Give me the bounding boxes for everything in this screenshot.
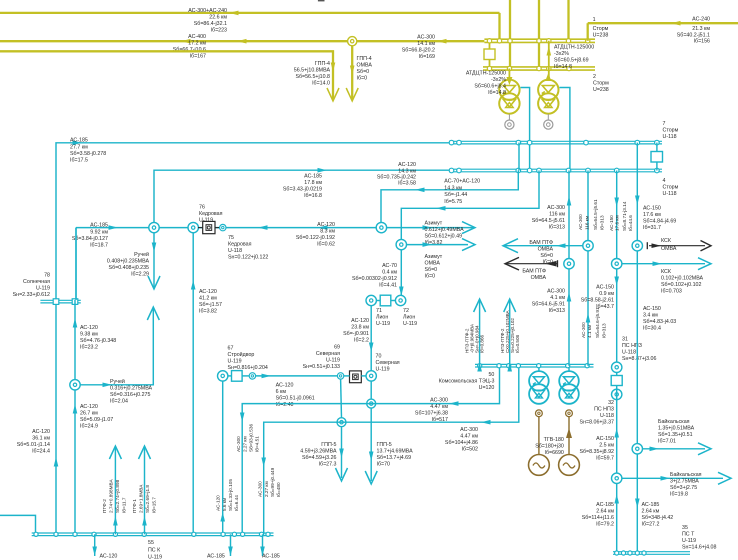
svg-text:ОМВА: ОМВА bbox=[531, 275, 547, 281]
arrow AT1 down into circle bbox=[506, 77, 512, 85]
arrow NPZ b2 bbox=[507, 362, 512, 372]
arrow NPZ a1 bbox=[474, 299, 486, 312]
svg-text:U-119: U-119 bbox=[326, 358, 340, 364]
wire AC-150 17.6 right bbox=[636, 143, 638, 553]
svg-text:U-118: U-118 bbox=[228, 248, 242, 254]
svg-text:2.69+1.8МВА: 2.69+1.8МВА bbox=[139, 484, 144, 513]
svg-text:116 км: 116 км bbox=[549, 212, 565, 218]
svg-text:2.64 км: 2.64 км bbox=[596, 509, 614, 515]
svg-text:U-119: U-119 bbox=[148, 555, 162, 560]
svg-text:55: 55 bbox=[148, 540, 154, 546]
svg-text:Iб=6690: Iб=6690 bbox=[545, 450, 564, 456]
svg-text:Сторм: Сторм bbox=[593, 81, 609, 87]
svg-text:Iб=2.04: Iб=2.04 bbox=[110, 399, 128, 405]
svg-text:КСК: КСК bbox=[661, 238, 672, 244]
svg-text:Sб=2.69+j1.8: Sб=2.69+j1.8 bbox=[145, 485, 150, 513]
svg-text:17.2 км: 17.2 км bbox=[188, 41, 206, 47]
wire 69 down bbox=[340, 379, 343, 418]
svg-text:Sн=14.6+j4.08: Sн=14.6+j4.08 bbox=[682, 545, 716, 551]
breaker square NPZ bbox=[611, 376, 622, 386]
arrow up below bus78 bbox=[73, 318, 78, 328]
svg-text:Sн=2.33+j0.612: Sн=2.33+j0.612 bbox=[13, 292, 50, 298]
wire AC-240 corner bbox=[587, 23, 589, 41]
svg-text:9.38 км: 9.38 км bbox=[80, 332, 98, 338]
svg-text:22.6 км: 22.6 км bbox=[209, 15, 227, 21]
node 69 Severnaya bbox=[337, 373, 343, 379]
svg-text:Iб=15.7: Iб=15.7 bbox=[152, 497, 157, 513]
svg-text:Sб=107+j6.38: Sб=107+j6.38 bbox=[415, 411, 448, 417]
svg-text:Sб=104+j4.86: Sб=104+j4.86 bbox=[445, 440, 478, 446]
svg-text:3.4 км: 3.4 км bbox=[643, 313, 658, 319]
svg-text:Sб=64.6-j5.91: Sб=64.6-j5.91 bbox=[532, 302, 565, 308]
svg-text:U-119: U-119 bbox=[376, 367, 390, 373]
svg-text:Sб=66.8-j20.2: Sб=66.8-j20.2 bbox=[402, 48, 435, 54]
wire AC-120 23.8 bbox=[370, 305, 372, 371]
wire corner down from Kedrovaya line bbox=[75, 228, 77, 300]
arrow GPP-4 1a bbox=[331, 63, 336, 73]
svg-text:Iб=480: Iб=480 bbox=[276, 482, 281, 497]
svg-text:Iб=2.2: Iб=2.2 bbox=[354, 338, 369, 344]
generator G1 TGV-180 bbox=[536, 410, 543, 417]
svg-text:Кедровая: Кедровая bbox=[228, 242, 252, 248]
svg-text:41.2 км: 41.2 км bbox=[199, 296, 217, 302]
svg-text:АС-400: АС-400 bbox=[188, 34, 206, 40]
svg-text:Северная: Северная bbox=[316, 351, 340, 357]
wire incoming top feeder 2 bbox=[538, 0, 540, 69]
arrow down AC-185 right bbox=[635, 499, 640, 509]
svg-text:АС-150: АС-150 bbox=[596, 285, 614, 291]
arrow right on Kedrovaya line bbox=[109, 225, 119, 230]
svg-text:Iб=7.01: Iб=7.01 bbox=[658, 439, 676, 445]
svg-text:Iб=11.7: Iб=11.7 bbox=[122, 497, 127, 513]
svg-text:Sб=13.7+j4.69: Sб=13.7+j4.69 bbox=[377, 455, 412, 461]
arrow AC-240 bbox=[671, 21, 681, 26]
arrow up AC-150 2.5 bbox=[614, 428, 619, 438]
svg-text:13.7+j4.69МВА: 13.7+j4.69МВА bbox=[377, 449, 414, 455]
svg-text:Iб=5.75: Iб=5.75 bbox=[444, 199, 462, 205]
nodes on bus 55 bbox=[34, 532, 38, 536]
svg-text:U-118: U-118 bbox=[600, 413, 614, 419]
svg-text:Sб=0.612+j0.49: Sб=0.612+j0.49 bbox=[425, 234, 463, 240]
bus 2 Storm 220kV bbox=[483, 66, 595, 68]
svg-text:-3х2%: -3х2% bbox=[554, 51, 569, 57]
svg-text:0.612+j0.49МВА: 0.612+j0.49МВА bbox=[425, 227, 465, 233]
bus 78 Solnechnaya bbox=[40, 299, 80, 301]
arrow Azimut1 b bbox=[462, 222, 475, 234]
nodes on bus 35 bbox=[615, 551, 619, 555]
ground stub AT1 bbox=[508, 114, 510, 120]
tick KSK bbox=[646, 242, 648, 249]
svg-text:Солнечная: Солнечная bbox=[23, 279, 50, 285]
svg-text:АС-70+АС-120: АС-70+АС-120 bbox=[444, 179, 480, 185]
svg-text:Iб=313: Iб=313 bbox=[549, 308, 565, 314]
arrow GPP-4 2b bbox=[346, 88, 358, 101]
transformer T2 TEC-3 bbox=[568, 367, 570, 371]
svg-text:14.3 км: 14.3 км bbox=[444, 186, 462, 192]
node GPP5 a bbox=[337, 418, 346, 427]
arrow up near bus50 bbox=[586, 313, 591, 323]
arrow up on 36.1 bbox=[54, 457, 59, 467]
svg-text:75: 75 bbox=[228, 235, 234, 241]
svg-text:17.8 км: 17.8 км bbox=[304, 180, 322, 186]
svg-text:0.9 км: 0.9 км bbox=[599, 291, 614, 297]
svg-text:Sб=0.122-j0.192: Sб=0.122-j0.192 bbox=[296, 235, 335, 241]
transformer AT1 ATDCTN-125000 bbox=[499, 80, 519, 100]
wire GPP5 b down bbox=[370, 408, 372, 481]
svg-text:Sб=0: Sб=0 bbox=[357, 69, 370, 75]
breaker square bus7-bus4 bbox=[651, 152, 663, 163]
svg-text:Sб=0.51-j0.0961: Sб=0.51-j0.0961 bbox=[276, 396, 315, 402]
node Baikalskaya 2 bbox=[612, 473, 622, 483]
wire corner down to bus 1 bbox=[498, 13, 500, 41]
bus 7 Storm 110kV bbox=[449, 140, 662, 142]
svg-text:АС-300: АС-300 bbox=[460, 427, 478, 433]
nodes on bus 7 bbox=[449, 140, 454, 145]
svg-text:АС-150: АС-150 bbox=[596, 436, 614, 442]
arrow NPZ a2 bbox=[477, 362, 482, 372]
arrow below c bbox=[260, 547, 265, 557]
svg-text:Sб=60.5+j8.69: Sб=60.5+j8.69 bbox=[554, 58, 589, 64]
svg-text:17.6 км: 17.6 км bbox=[643, 212, 661, 218]
wire Kedrovaya line bbox=[76, 227, 474, 229]
svg-text:0.316+j0.275МВА: 0.316+j0.275МВА bbox=[110, 386, 153, 392]
svg-text:Северная: Северная bbox=[376, 360, 400, 366]
svg-text:4.1 км: 4.1 км bbox=[550, 295, 565, 301]
svg-text:8.3 км: 8.3 км bbox=[320, 229, 335, 235]
svg-text:Sб=8.58-j2.61: Sб=8.58-j2.61 bbox=[581, 298, 614, 304]
svg-text:Iб=3.58: Iб=3.58 bbox=[398, 181, 416, 187]
svg-text:Iб=17.5: Iб=17.5 bbox=[70, 158, 88, 164]
svg-text:U-118: U-118 bbox=[622, 350, 636, 356]
svg-text:АС-120: АС-120 bbox=[32, 429, 50, 435]
svg-text:АС-300: АС-300 bbox=[547, 205, 565, 211]
svg-text:21.3 км: 21.3 км bbox=[692, 26, 710, 32]
svg-text:Sб=0.102+j0.102: Sб=0.102+j0.102 bbox=[661, 282, 701, 288]
nodes on bus 1 bbox=[487, 39, 491, 43]
wire PTF-2 load bbox=[114, 446, 116, 534]
wire stubs 71-72 bbox=[376, 300, 380, 302]
wire below bus55 b bbox=[230, 534, 232, 556]
svg-text:Iб=24.4: Iб=24.4 bbox=[32, 449, 50, 455]
wire stubs 69-70 bbox=[361, 375, 366, 377]
arrow AC-300 near bus bbox=[437, 39, 447, 44]
svg-text:Iб=14.8: Iб=14.8 bbox=[488, 90, 506, 96]
arrow AC-185 27.7 bbox=[73, 141, 83, 146]
wire left stub y515 bbox=[0, 515, 36, 534]
wire Azimut 2 bbox=[406, 244, 468, 246]
svg-text:7: 7 bbox=[663, 121, 666, 127]
wire BAM PTF cyan bbox=[503, 245, 583, 247]
svg-text:76: 76 bbox=[199, 205, 205, 211]
svg-text:ПТФ-1: ПТФ-1 bbox=[132, 499, 137, 513]
svg-text:U-119: U-119 bbox=[682, 538, 696, 544]
svg-text:U=238: U=238 bbox=[593, 33, 609, 39]
svg-text:Sб=3.84-j0.127: Sб=3.84-j0.127 bbox=[72, 236, 108, 242]
arrow down NPZ top bbox=[614, 198, 619, 208]
svg-text:2.64 км: 2.64 км bbox=[642, 509, 660, 515]
svg-text:0.102+j0.102МВА: 0.102+j0.102МВА bbox=[661, 276, 704, 282]
node tap on AC-400 line bbox=[348, 37, 357, 46]
svg-text:71: 71 bbox=[376, 308, 382, 314]
arrow KSK black bbox=[652, 243, 662, 248]
arrow GPP-4 2a bbox=[350, 66, 355, 76]
svg-text:Ручей: Ручей bbox=[110, 378, 125, 385]
svg-text:Iб=14.8: Iб=14.8 bbox=[554, 64, 572, 70]
svg-text:Sб=93-j0.536: Sб=93-j0.536 bbox=[249, 424, 254, 452]
svg-text:АС-300: АС-300 bbox=[236, 436, 241, 452]
svg-text:72: 72 bbox=[403, 308, 409, 314]
svg-text:Sб=0.00302-j0.912: Sб=0.00302-j0.912 bbox=[352, 276, 397, 282]
arrow GPP5 a2 bbox=[336, 468, 348, 481]
arrow GPP5 b1 bbox=[369, 452, 374, 462]
svg-text:Iб=31.7: Iб=31.7 bbox=[643, 225, 661, 231]
wire AC-185 27.7km bbox=[56, 143, 449, 535]
ground circle AT1 bbox=[505, 120, 514, 129]
svg-text:Iб=0.508: Iб=0.508 bbox=[515, 334, 520, 353]
svg-text:U-119: U-119 bbox=[228, 359, 242, 365]
arrow up on 41.2 bbox=[191, 280, 196, 290]
svg-text:Sб=86.4-j32.1: Sб=86.4-j32.1 bbox=[194, 21, 227, 27]
svg-text:Sб=-j1.57: Sб=-j1.57 bbox=[199, 302, 222, 308]
arrow PTF-2 a bbox=[109, 446, 121, 459]
arrow PTF-1 b bbox=[142, 516, 147, 526]
svg-text:Sб=1.33-j0.105: Sб=1.33-j0.105 bbox=[228, 479, 233, 511]
svg-text:4: 4 bbox=[663, 178, 666, 184]
svg-text:АТДЦТН-125000: АТДЦТН-125000 bbox=[554, 45, 594, 51]
arrow left b bbox=[318, 225, 328, 230]
node Azimut 2 bbox=[396, 239, 406, 249]
svg-text:БАМ ПТФ: БАМ ПТФ bbox=[522, 269, 546, 275]
node 72 Lion bbox=[395, 295, 405, 305]
wire 67 down to bus 55 bbox=[222, 381, 224, 535]
wire NPZ-PTF load b bbox=[509, 299, 511, 364]
wire bus tie vertical bbox=[489, 41, 491, 49]
svg-text:Iб=27.3: Iб=27.3 bbox=[319, 462, 337, 468]
svg-text:АС-300: АС-300 bbox=[430, 398, 448, 404]
substation square Kedrovaya bbox=[203, 221, 215, 233]
node Azimut 1 bbox=[376, 222, 386, 232]
svg-text:56.5+j10.8МВА: 56.5+j10.8МВА bbox=[294, 68, 331, 74]
tick BAM black bbox=[557, 260, 559, 267]
svg-text:ГПП-5: ГПП-5 bbox=[321, 442, 336, 448]
wire Ruchey feed down bbox=[153, 232, 155, 288]
svg-text:АС-120: АС-120 bbox=[80, 325, 98, 331]
arrow down to node 72 bbox=[399, 287, 404, 297]
svg-text:АС-120: АС-120 bbox=[199, 289, 217, 295]
svg-text:U-119: U-119 bbox=[36, 286, 50, 292]
svg-text:2: 2 bbox=[593, 74, 596, 80]
wire below node to bus55 bbox=[74, 390, 76, 535]
svg-text:Iб=18.7: Iб=18.7 bbox=[90, 243, 108, 249]
arrow up near bus4 bbox=[567, 196, 572, 206]
wire NPZ-PTF load a bbox=[479, 299, 481, 364]
breaker square 69-70 bbox=[350, 371, 362, 383]
svg-text:АС-300: АС-300 bbox=[581, 322, 586, 338]
svg-text:Sб=3+j2.75: Sб=3+j2.75 bbox=[670, 485, 697, 491]
svg-text:Iб=167: Iб=167 bbox=[190, 54, 206, 60]
svg-text:Sб=4.84-j4.69: Sб=4.84-j4.69 bbox=[643, 219, 676, 225]
svg-text:Iб=30.4: Iб=30.4 bbox=[643, 326, 661, 332]
svg-text:АС-70: АС-70 bbox=[382, 263, 397, 269]
svg-text:Сторм: Сторм bbox=[593, 26, 609, 32]
node BAM black tap bbox=[564, 259, 574, 269]
wire stubs 67 bbox=[242, 375, 249, 377]
svg-text:Sб=64.5-j5.61: Sб=64.5-j5.61 bbox=[532, 218, 565, 224]
svg-text:Sб=60.6+j8.4: Sб=60.6+j8.4 bbox=[474, 84, 506, 90]
svg-text:17.6 км: 17.6 км bbox=[615, 215, 620, 231]
generator G2 TGV-180 bbox=[566, 410, 573, 417]
nodes on bus 50 bbox=[478, 364, 482, 368]
svg-text:Sб=0.316+j0.275: Sб=0.316+j0.275 bbox=[110, 392, 150, 398]
arrow below a bbox=[92, 547, 97, 557]
svg-text:Sн=8.87+j3.06: Sн=8.87+j3.06 bbox=[622, 356, 656, 362]
svg-text:2.74+0.898МВА: 2.74+0.898МВА bbox=[109, 479, 114, 513]
svg-text:АС-185: АС-185 bbox=[70, 138, 88, 144]
node 32 bbox=[612, 389, 622, 399]
svg-text:Sб=348-j4.42: Sб=348-j4.42 bbox=[642, 515, 674, 521]
svg-text:Sб=64.6+j5.91: Sб=64.6+j5.91 bbox=[595, 307, 600, 338]
svg-text:Sб=56.5+j10.8: Sб=56.5+j10.8 bbox=[295, 74, 330, 80]
svg-text:Iб=19.8: Iб=19.8 bbox=[670, 492, 688, 498]
arrow PTF-1 a bbox=[139, 446, 151, 459]
svg-text:Iб=4.41: Iб=4.41 bbox=[379, 283, 397, 289]
svg-text:1.35+j0.51МВА: 1.35+j0.51МВА bbox=[658, 426, 695, 432]
svg-text:Sб=114+j11.6: Sб=114+j11.6 bbox=[582, 515, 614, 521]
svg-text:Iб=6.44: Iб=6.44 bbox=[234, 495, 239, 511]
svg-text:U=238: U=238 bbox=[593, 87, 609, 93]
wire x76 down to bus78 bbox=[75, 228, 77, 300]
svg-text:АС-185: АС-185 bbox=[90, 223, 108, 229]
svg-text:Iб=43.7: Iб=43.7 bbox=[596, 304, 614, 310]
svg-text:Сторм: Сторм bbox=[663, 128, 679, 134]
breaker square between buses bbox=[484, 49, 495, 60]
svg-text:АС-185: АС-185 bbox=[207, 554, 225, 560]
svg-text:Sб=99+j0.449: Sб=99+j0.449 bbox=[270, 467, 275, 497]
svg-text:Iб=313: Iб=313 bbox=[602, 323, 607, 338]
arrow below b bbox=[228, 547, 233, 557]
svg-text:ГПП-4: ГПП-4 bbox=[357, 56, 372, 62]
arrow down on 2.27 a bbox=[240, 413, 245, 423]
ground circle AT2 bbox=[544, 120, 553, 129]
svg-text:67: 67 bbox=[228, 346, 234, 352]
svg-text:Стройдвор: Стройдвор bbox=[228, 351, 255, 358]
arrow up on 26.7 bbox=[73, 404, 78, 414]
arrow AC-300 4.47 b bbox=[481, 420, 491, 425]
svg-text:Iб=0: Iб=0 bbox=[425, 274, 436, 280]
svg-text:35: 35 bbox=[682, 525, 688, 531]
svg-text:Iб=313: Iб=313 bbox=[600, 215, 605, 230]
arrow down on AC-120 23.8 bbox=[369, 343, 374, 353]
arrow GPP5 b2 bbox=[365, 471, 377, 484]
svg-text:4.1 км: 4.1 км bbox=[587, 325, 592, 338]
svg-text:Азимут: Азимут bbox=[425, 254, 443, 260]
svg-text:Iб=156: Iб=156 bbox=[694, 39, 710, 45]
svg-text:АТДЦТН-125000: АТДЦТН-125000 bbox=[466, 71, 506, 77]
svg-text:2.27 км: 2.27 км bbox=[243, 436, 248, 452]
svg-text:Sб=-j1.44: Sб=-j1.44 bbox=[444, 192, 467, 198]
svg-text:ОМВА: ОМВА bbox=[425, 261, 441, 267]
svg-text:U-118: U-118 bbox=[663, 134, 677, 140]
arrow up mid bbox=[567, 292, 572, 302]
svg-text:АС-185: АС-185 bbox=[262, 554, 280, 560]
arrow Baik1 a bbox=[650, 447, 660, 452]
svg-text:Sб=5.01-j1.14: Sб=5.01-j1.14 bbox=[17, 442, 50, 448]
svg-text:69: 69 bbox=[334, 345, 340, 351]
svg-text:Sб=0: Sб=0 bbox=[540, 253, 553, 259]
svg-text:ОМВА: ОМВА bbox=[357, 63, 373, 69]
svg-text:4.47 км: 4.47 км bbox=[460, 434, 478, 440]
arrow on AC-300+AC-240 bbox=[229, 11, 239, 16]
arrow Ruchey b bbox=[148, 276, 160, 289]
wire AC-240 line bbox=[588, 22, 738, 24]
svg-text:Sн=0.816+j0.204: Sн=0.816+j0.204 bbox=[228, 365, 268, 371]
wire AC-300 4.47 b bbox=[264, 366, 519, 535]
breaker square 71-72 bbox=[380, 295, 391, 306]
svg-text:Iб=79.2: Iб=79.2 bbox=[596, 522, 614, 528]
svg-text:Ручей: Ручей bbox=[134, 251, 149, 258]
svg-text:2.5 км: 2.5 км bbox=[599, 443, 614, 449]
arrow AC-120 6km bbox=[262, 374, 272, 379]
svg-text:Iб=0.62: Iб=0.62 bbox=[317, 242, 335, 248]
wire incoming top feeder 3 bbox=[567, 0, 569, 41]
svg-text:Sб=0: Sб=0 bbox=[425, 267, 438, 273]
svg-text:U=120: U=120 bbox=[479, 385, 495, 391]
svg-text:Iб=23.2: Iб=23.2 bbox=[80, 345, 98, 351]
wire AC-300 116km bbox=[568, 171, 570, 366]
svg-text:-3х2%: -3х2% bbox=[491, 77, 506, 83]
svg-text:0.408+j0.235МВА: 0.408+j0.235МВА bbox=[107, 259, 150, 265]
svg-text:АС-150: АС-150 bbox=[643, 206, 661, 212]
svg-text:3+j2.75МВА: 3+j2.75МВА bbox=[670, 479, 699, 485]
svg-text:31: 31 bbox=[622, 337, 628, 343]
node 67 right small bbox=[249, 373, 255, 379]
svg-text:2.27 км: 2.27 км bbox=[264, 481, 269, 497]
svg-text:5.6 км: 5.6 км bbox=[222, 498, 227, 511]
svg-text:Азимут: Азимут bbox=[425, 221, 443, 227]
svg-text:Iб=24.9: Iб=24.9 bbox=[80, 424, 98, 430]
wire GPP-4 feeder 2 bbox=[351, 46, 353, 99]
arrow Ruchey a bbox=[152, 243, 157, 253]
arrow up AC-185 left bbox=[614, 494, 619, 504]
arrow on Lion branch wire bbox=[436, 206, 446, 211]
svg-text:КСК: КСК bbox=[661, 269, 672, 275]
svg-text:Сторм: Сторм bbox=[663, 185, 679, 191]
svg-text:Лион: Лион bbox=[403, 315, 415, 321]
svg-text:ПС Т: ПС Т bbox=[682, 532, 695, 538]
svg-text:Sб=64.5+j5.61: Sб=64.5+j5.61 bbox=[593, 199, 598, 230]
svg-text:Байкальская: Байкальская bbox=[670, 471, 702, 478]
svg-text:Sн=0.122+j0.122: Sн=0.122+j0.122 bbox=[228, 255, 268, 261]
bus 55 PS K bbox=[32, 532, 274, 534]
node Baikalskaya 1 bbox=[632, 444, 642, 454]
svg-text:Iб=59.7: Iб=59.7 bbox=[596, 456, 614, 462]
svg-text:Iб=2.29: Iб=2.29 bbox=[131, 272, 149, 278]
node GPP5 b bbox=[367, 399, 376, 408]
node Ruchey 2 bbox=[70, 380, 80, 390]
node 70 Severnaya bbox=[366, 371, 376, 381]
svg-text:6 км: 6 км bbox=[276, 389, 287, 395]
wire Ruchey 2 bbox=[80, 309, 154, 385]
arrow BAM cyan b bbox=[556, 243, 566, 248]
transformer T1 TEC-3 bbox=[538, 367, 540, 371]
node KSK black bbox=[632, 241, 642, 251]
arrow NPZ b1 bbox=[504, 299, 516, 312]
svg-text:АС-120: АС-120 bbox=[351, 318, 369, 324]
svg-text:АС-120: АС-120 bbox=[80, 404, 98, 410]
node KSK cyan on NPZ line bbox=[612, 259, 622, 269]
svg-text:Sб=3.58-j0.278: Sб=3.58-j0.278 bbox=[70, 151, 106, 157]
svg-text:Sн=8.06+j3.37: Sн=8.06+j3.37 bbox=[580, 420, 614, 426]
